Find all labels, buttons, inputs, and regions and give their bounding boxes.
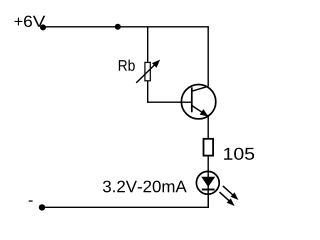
junction dot top — [115, 24, 121, 30]
terminal dot positive — [40, 24, 46, 30]
rheostat arrow — [136, 60, 160, 83]
label minus — [29, 200, 33, 201]
LED light arrow 2 — [220, 192, 235, 206]
LED cathode bar — [202, 189, 215, 191]
LED light arrow 1 — [223, 186, 239, 200]
rheostat Rb body — [145, 62, 150, 80]
wire to rheostat top — [147, 27, 149, 63]
wire bottom horizontal — [42, 206, 209, 208]
transistor collector diagonal — [192, 86, 208, 91]
resistor body — [204, 139, 214, 156]
LED triangle — [201, 177, 215, 187]
LED D1 circle — [196, 171, 219, 194]
transistor emitter diagonal with arrow — [192, 106, 209, 117]
wire collector vertical — [207, 27, 209, 87]
LED anode wire inside — [207, 171, 209, 207]
label +6V — [15, 16, 46, 27]
wire top horizontal — [43, 26, 209, 28]
label 105 — [224, 148, 254, 160]
wire emitter to resistor — [207, 116, 209, 139]
transistor Q1 circle — [181, 85, 215, 119]
label 3.2V-20mA — [103, 181, 187, 193]
terminal dot negative — [39, 204, 45, 210]
wire rheostat to base corner — [148, 81, 192, 102]
wire resistor to LED — [207, 156, 209, 208]
label Rb — [119, 60, 135, 71]
transistor base bar — [191, 87, 193, 112]
